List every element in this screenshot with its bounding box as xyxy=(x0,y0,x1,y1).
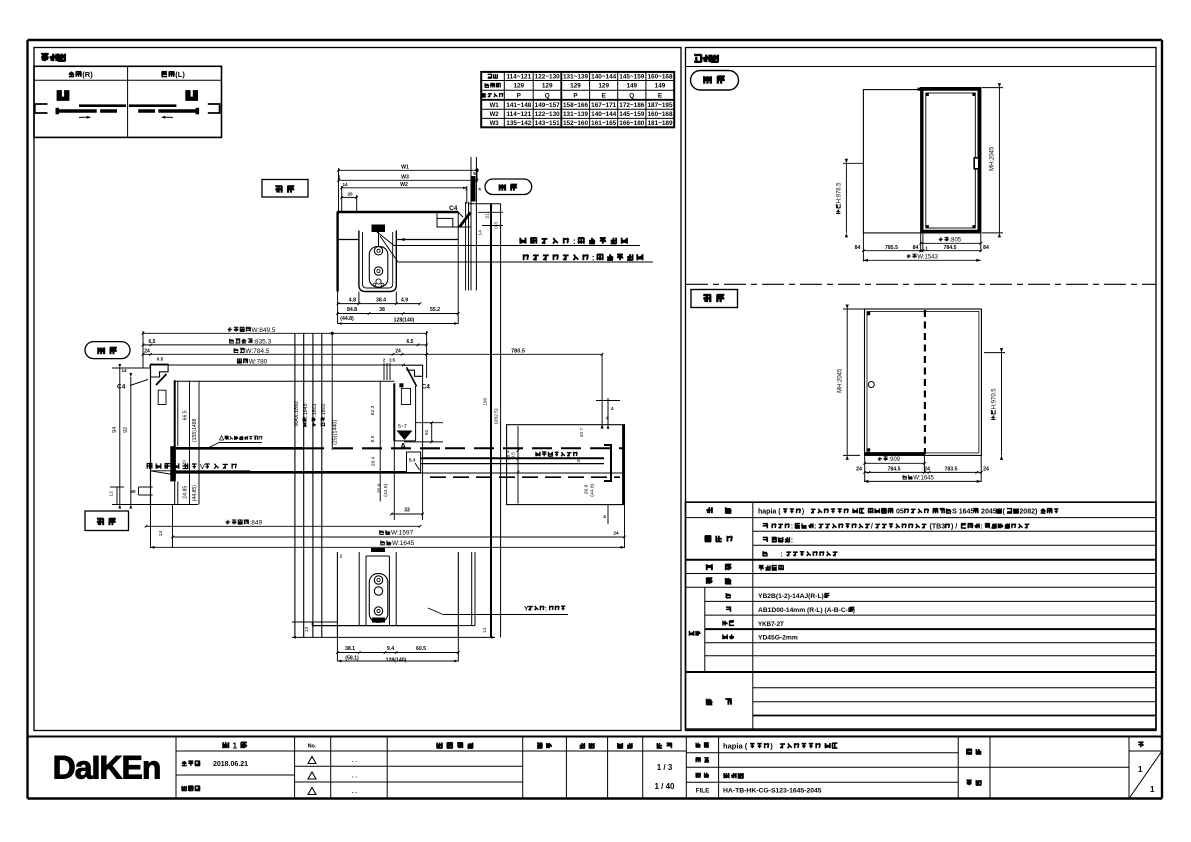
svg-text:2.5: 2.5 xyxy=(389,358,395,363)
svg-text:FILE: FILE xyxy=(696,788,709,795)
svg-text:YB2B(1-2)-14AJ(R-L): YB2B(1-2)-14AJ(R-L) xyxy=(758,593,824,600)
svg-text:140~144: 140~144 xyxy=(591,74,617,81)
svg-text::835.3: :835.3 xyxy=(253,338,271,345)
svg-text:181~189: 181~189 xyxy=(647,120,673,127)
svg-text:4.9: 4.9 xyxy=(401,298,408,304)
svg-text:. .: . . xyxy=(352,758,357,764)
svg-text:50: 50 xyxy=(424,429,430,435)
svg-text:E: E xyxy=(658,92,663,99)
svg-text:12: 12 xyxy=(304,626,310,632)
svg-text:24: 24 xyxy=(983,467,989,473)
svg-text:(25)(1440): (25)(1440) xyxy=(333,420,339,445)
svg-text::909: :909 xyxy=(889,457,901,463)
svg-text:4: 4 xyxy=(603,514,606,519)
svg-text::1802: :1802 xyxy=(321,403,327,417)
svg-text:190: 190 xyxy=(483,397,489,406)
svg-text:W:1597: W:1597 xyxy=(391,530,414,537)
svg-text:114~121: 114~121 xyxy=(506,111,531,118)
svg-text:Q: Q xyxy=(545,92,550,99)
svg-text:S 1645: S 1645 xyxy=(952,509,974,516)
svg-text:167~171: 167~171 xyxy=(591,102,617,109)
svg-text:24: 24 xyxy=(856,467,862,473)
svg-text::1801: :1801 xyxy=(312,403,318,417)
svg-text:2082): 2082) xyxy=(1019,509,1039,516)
svg-text:66.5: 66.5 xyxy=(183,410,189,420)
svg-text::: : xyxy=(769,551,783,558)
svg-text:): ) xyxy=(770,742,777,751)
svg-text:1: 1 xyxy=(925,246,928,251)
svg-text:W3: W3 xyxy=(490,121,500,127)
svg-text:C4: C4 xyxy=(117,384,126,391)
svg-text:7: 7 xyxy=(465,187,468,192)
svg-text:(282.5): (282.5) xyxy=(493,408,499,424)
svg-text:24: 24 xyxy=(613,531,619,536)
svg-text:14: 14 xyxy=(342,182,348,187)
svg-text:62.3: 62.3 xyxy=(370,405,376,415)
svg-text:C4: C4 xyxy=(449,205,458,212)
svg-text:4.8: 4.8 xyxy=(349,298,356,304)
svg-text:hapia (: hapia ( xyxy=(723,742,748,751)
svg-text:W:1645: W:1645 xyxy=(392,540,415,547)
svg-text:38: 38 xyxy=(379,307,385,313)
svg-text:160~168: 160~168 xyxy=(647,74,673,81)
svg-text:hapia (: hapia ( xyxy=(758,509,781,516)
svg-text:160~168: 160~168 xyxy=(647,111,673,118)
svg-text:(44.8): (44.8) xyxy=(590,483,596,496)
svg-text:26.9: 26.9 xyxy=(584,484,590,494)
svg-text:(L): (L) xyxy=(175,70,185,79)
svg-text::: : xyxy=(980,524,982,531)
svg-text:149: 149 xyxy=(655,83,666,90)
svg-text:20.7: 20.7 xyxy=(579,427,585,437)
svg-text:152~160: 152~160 xyxy=(563,120,589,127)
svg-text:4: 4 xyxy=(606,416,609,422)
svg-text:114~121: 114~121 xyxy=(506,74,531,81)
svg-text:4: 4 xyxy=(478,187,481,192)
svg-text:AB1D00-14mm (R-L) (A-B-C-D): AB1D00-14mm (R-L) (A-B-C-D) xyxy=(758,607,855,614)
svg-text:129: 129 xyxy=(598,83,609,90)
svg-text:6.5: 6.5 xyxy=(407,339,414,345)
svg-text:28.4: 28.4 xyxy=(506,450,512,460)
svg-text:128(140): 128(140) xyxy=(386,658,407,664)
svg-text:145~159: 145~159 xyxy=(619,74,645,81)
svg-text:135~142: 135~142 xyxy=(506,120,532,127)
svg-text:149~157: 149~157 xyxy=(535,102,561,109)
svg-text::849: :849 xyxy=(250,520,263,527)
svg-text:84: 84 xyxy=(913,245,919,251)
svg-text:5~7: 5~7 xyxy=(398,424,407,430)
svg-text:131~139: 131~139 xyxy=(563,74,589,81)
svg-text:140~144: 140~144 xyxy=(591,111,617,118)
svg-text::: : xyxy=(791,524,793,531)
svg-text:38.1: 38.1 xyxy=(345,646,355,652)
svg-text:W3: W3 xyxy=(401,175,409,181)
svg-text:14: 14 xyxy=(121,368,127,373)
svg-text:MH:2045: MH:2045 xyxy=(990,146,996,171)
svg-text:84: 84 xyxy=(855,245,861,251)
svg-text:YD45G-2mm: YD45G-2mm xyxy=(758,635,798,642)
svg-text:(TB3: (TB3 xyxy=(928,524,946,531)
svg-text:0.5: 0.5 xyxy=(157,357,164,362)
svg-text:149: 149 xyxy=(626,83,637,90)
svg-text:8.5: 8.5 xyxy=(370,435,376,442)
svg-text:38: 38 xyxy=(576,457,582,463)
svg-text:143~151: 143~151 xyxy=(535,120,561,127)
svg-text:6.5: 6.5 xyxy=(149,339,156,345)
svg-text:1: 1 xyxy=(230,741,240,751)
svg-text:24: 24 xyxy=(158,530,164,536)
svg-text:33: 33 xyxy=(404,508,410,514)
svg-text:783.5: 783.5 xyxy=(945,467,958,473)
svg-text:H:976.5: H:976.5 xyxy=(837,182,843,203)
svg-text:1: 1 xyxy=(1138,765,1143,774)
svg-text:84.8: 84.8 xyxy=(347,307,357,313)
svg-text:/: / xyxy=(871,524,873,531)
svg-text:MAX:1892: MAX:1892 xyxy=(294,401,300,426)
svg-text:(R): (R) xyxy=(82,70,93,79)
svg-text:W:784.5: W:784.5 xyxy=(245,348,269,355)
svg-text::805: :805 xyxy=(950,238,962,244)
svg-text:. .: . . xyxy=(352,789,357,795)
svg-text:24.85: 24.85 xyxy=(183,486,189,499)
svg-text:DaIKEn: DaIKEn xyxy=(53,750,161,786)
svg-text:55.2: 55.2 xyxy=(430,307,440,313)
svg-text:P: P xyxy=(573,92,578,99)
svg-text:784.5: 784.5 xyxy=(944,245,957,251)
svg-text:2018.06.21: 2018.06.21 xyxy=(213,761,248,768)
svg-text:A: A xyxy=(400,441,406,451)
svg-text::: : xyxy=(814,524,816,531)
svg-text:) /: ) / xyxy=(951,524,957,531)
svg-text:129: 129 xyxy=(513,83,524,90)
svg-text:1: 1 xyxy=(1150,785,1155,794)
svg-text:172~186: 172~186 xyxy=(619,102,645,109)
svg-text:14: 14 xyxy=(482,627,488,633)
svg-text:YKB7-2T: YKB7-2T xyxy=(758,621,784,628)
svg-text:. .: . . xyxy=(352,774,357,780)
svg-text:): ) xyxy=(802,509,808,516)
svg-text:784.5: 784.5 xyxy=(888,467,901,473)
svg-text:(44.85): (44.85) xyxy=(192,485,198,502)
svg-text:145~159: 145~159 xyxy=(619,111,645,118)
svg-text::: : xyxy=(545,606,547,613)
svg-text::: : xyxy=(573,236,576,246)
svg-text:94: 94 xyxy=(112,427,118,433)
svg-text:H:970.5: H:970.5 xyxy=(992,388,998,409)
svg-text:20: 20 xyxy=(347,192,353,197)
svg-text::1845: :1845 xyxy=(303,403,309,417)
svg-text:5: 5 xyxy=(473,171,476,176)
svg-text:P: P xyxy=(517,92,522,99)
svg-text:128(140): 128(140) xyxy=(394,317,415,323)
svg-text:129: 129 xyxy=(542,83,553,90)
svg-text:122~130: 122~130 xyxy=(535,74,561,81)
svg-text::: : xyxy=(791,537,793,544)
svg-text:25.6: 25.6 xyxy=(377,483,383,493)
svg-text:4: 4 xyxy=(611,406,614,411)
svg-text:24: 24 xyxy=(924,467,930,473)
svg-text:(155)1498: (155)1498 xyxy=(192,418,198,442)
svg-text:W1: W1 xyxy=(490,103,500,109)
svg-text:141~148: 141~148 xyxy=(506,102,532,109)
svg-text:2045: 2045 xyxy=(979,509,997,516)
svg-text:05: 05 xyxy=(894,509,904,516)
svg-text:24: 24 xyxy=(144,349,150,355)
svg-text:9.4: 9.4 xyxy=(387,646,394,652)
svg-text:129: 129 xyxy=(570,83,581,90)
svg-text:14: 14 xyxy=(478,230,484,236)
svg-text:W2: W2 xyxy=(490,112,500,118)
svg-text:60.5: 60.5 xyxy=(416,646,426,652)
svg-text:1 / 40: 1 / 40 xyxy=(654,782,675,791)
svg-text:E: E xyxy=(602,92,607,99)
svg-text:84: 84 xyxy=(983,245,989,251)
svg-text:MH:2045: MH:2045 xyxy=(838,368,844,393)
svg-text:5.3: 5.3 xyxy=(409,458,416,463)
svg-text:131~139: 131~139 xyxy=(563,111,589,118)
svg-text:187~195: 187~195 xyxy=(647,102,673,109)
svg-text:158~166: 158~166 xyxy=(563,102,589,109)
svg-text:785.5: 785.5 xyxy=(885,245,898,251)
svg-text:V: V xyxy=(200,462,206,471)
svg-text:28.4: 28.4 xyxy=(371,456,377,466)
svg-text::: : xyxy=(592,253,595,263)
svg-text:166~180: 166~180 xyxy=(619,120,645,127)
svg-text:(44.8): (44.8) xyxy=(340,316,354,322)
svg-text:24: 24 xyxy=(395,349,401,355)
svg-text:W2: W2 xyxy=(400,182,408,188)
svg-text:Q: Q xyxy=(629,92,634,99)
svg-text:HA-TB-HK-CG-S123-1645-2045: HA-TB-HK-CG-S123-1645-2045 xyxy=(723,788,822,795)
svg-text:W:1645: W:1645 xyxy=(913,475,934,481)
svg-text:W:780: W:780 xyxy=(249,359,268,366)
svg-text:W:849.5: W:849.5 xyxy=(252,327,276,334)
svg-text:W1: W1 xyxy=(401,165,409,171)
svg-text:0.3: 0.3 xyxy=(494,222,500,229)
svg-text:12: 12 xyxy=(109,491,115,497)
svg-text:(44.6): (44.6) xyxy=(383,483,389,496)
svg-text:W:1543: W:1543 xyxy=(917,254,938,260)
svg-text:780.5: 780.5 xyxy=(511,349,525,355)
svg-text:21: 21 xyxy=(485,213,491,219)
svg-text:1 / 3: 1 / 3 xyxy=(657,763,673,772)
svg-text:92: 92 xyxy=(123,427,129,433)
svg-text:161~165: 161~165 xyxy=(591,120,617,127)
svg-text:No.: No. xyxy=(308,744,317,750)
svg-text:122~130: 122~130 xyxy=(535,111,561,118)
svg-text:50: 50 xyxy=(130,489,136,494)
svg-text:38.4: 38.4 xyxy=(376,298,386,304)
